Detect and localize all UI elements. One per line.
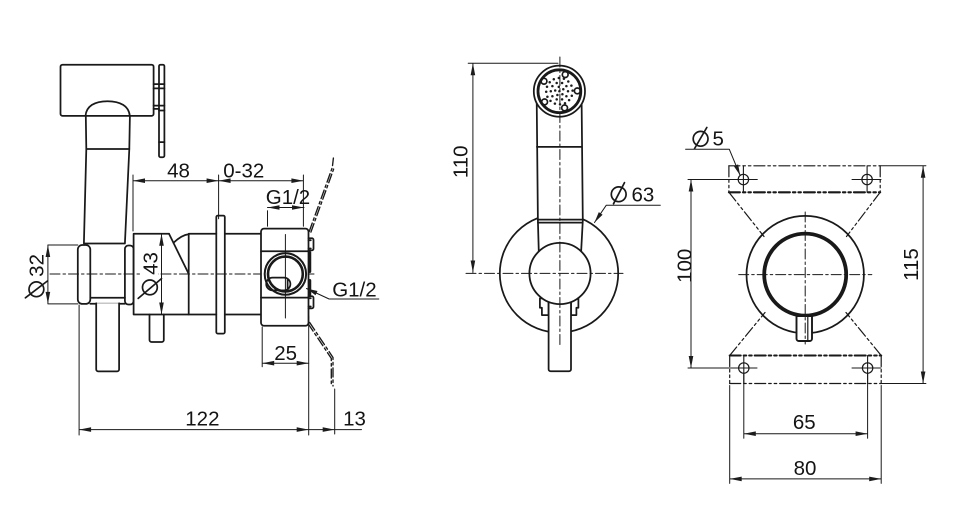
nut bracket left [540,298,549,315]
spray head outer circle [534,66,585,117]
spray rim holes [541,72,580,111]
centerline horizontal left view [50,273,314,275]
dim 80 [730,386,882,484]
centerline vertical middle view [559,57,561,346]
escutcheon flange [216,216,225,334]
diameter symbol d32 [25,281,47,298]
top plate phantom [729,166,880,237]
hole axis lines [743,166,867,384]
head dome [86,101,130,116]
svg-text:13: 13 [343,408,366,431]
svg-text:65: 65 [793,411,816,434]
dims right view [686,149,926,483]
svg-text:115: 115 [900,248,923,281]
holder disc rear [125,246,134,305]
wall-mount valve body [261,229,309,326]
dim d32 [48,245,78,304]
screw hole bottom-right [862,363,872,373]
svg-text:G1/2: G1/2 [332,278,376,301]
holder disc front (d32) [78,245,91,304]
handle boss circle [529,243,590,304]
svg-text:110: 110 [450,145,473,178]
body band lines [261,251,309,297]
mask under d43 digits [142,251,159,279]
port ring outer [265,253,306,294]
centerline horizontal middle view [466,272,623,274]
arrowheads left view [46,178,335,432]
dome skirt [86,116,130,149]
lever front [549,302,571,371]
svg-text:43: 43 [139,252,162,275]
phantom pipe lower [308,323,333,387]
handle joint double line [538,220,583,223]
wall bracket tab lower [154,106,159,109]
svg-text:63: 63 [632,184,655,207]
screw hole top-left [738,174,748,184]
bracket strip ticks [159,84,164,142]
mounting clip bottom [309,296,314,308]
handle cone (side) [84,149,129,244]
screw hole bottom-left [739,363,749,373]
arrowheads right view [689,164,926,481]
dim d43 [161,234,163,315]
port ring inner [268,257,303,292]
middle cylinder section [189,234,217,315]
svg-text:100: 100 [674,249,697,283]
dim 100 [688,180,757,369]
leader d63 [595,205,661,222]
svg-text:32: 32 [26,254,49,277]
dim 65 [744,374,868,439]
diameter symbol d43 [138,279,161,299]
body vertical centerline [284,235,286,319]
centerline vertical right view [804,212,806,344]
wall bracket strip [159,65,164,158]
wall extension line [308,316,310,435]
dim 13 [309,389,362,434]
spray head inner ring [538,70,581,113]
shower handle front [537,101,583,253]
svg-text:48: 48 [167,160,190,183]
svg-text:G1/2: G1/2 [266,186,310,209]
leader d5 [686,149,741,175]
dim 48 [133,175,219,231]
stub under block [150,315,164,343]
svg-text:5: 5 [713,127,724,150]
handle tail [96,303,119,371]
mounting clip top [309,238,314,250]
shower head body (side) [61,65,154,116]
thread edge marks [308,253,311,296]
dim 110 [468,63,558,272]
centerline horizontal right view [739,274,872,276]
lever blob in port [266,278,290,291]
phantom pipe upper [309,158,334,232]
bottom plate phantom [730,313,882,384]
dim 122 [79,305,309,435]
handle joint line [537,146,582,148]
cone chamfer diagonal [169,234,189,274]
arrowheads middle [471,63,603,272]
svg-text:25: 25 [274,342,297,365]
mask under d32 digits [28,252,44,278]
screw hole top-right [862,174,872,184]
mixer body d43 block [134,234,189,315]
inner ring thick [764,234,846,316]
section flange-to-body [225,234,261,315]
svg-text:0-32: 0-32 [223,160,264,183]
cone silhouette arc [174,234,190,243]
leader G1/2 right [307,289,379,300]
hole centerlines [688,180,881,369]
svg-text:122: 122 [185,408,219,431]
dim G1/2 top [268,208,305,227]
holder bottom connector [90,298,125,304]
wall bracket tab upper [154,84,159,88]
svg-text:80: 80 [794,457,817,480]
lever tab right view [797,316,813,341]
diameter symbol d5 [693,128,708,149]
dim 25 [262,327,309,367]
outer escutcheon circle right view [747,216,864,333]
text labels left view [26,160,377,431]
spray nozzles dots [545,77,574,106]
escutcheon circle d63 [500,214,618,332]
dim 0-32 [219,175,304,226]
nut bracket right [571,298,578,315]
dim 115 [880,166,926,384]
